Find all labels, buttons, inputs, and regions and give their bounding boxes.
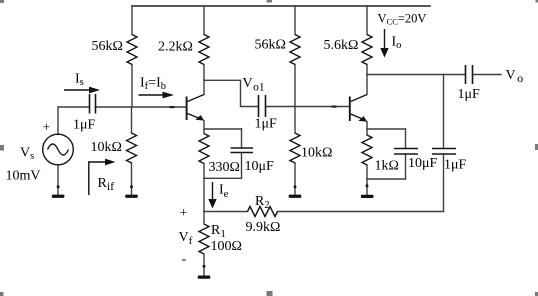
wire 56k R_B1 bottom lead to base node bbox=[131, 65, 133, 108]
wire feedback cap bottom lead bbox=[443, 154, 445, 212]
svg-text:Vo: Vo bbox=[506, 68, 524, 85]
ground below 1k Q2 emitter bbox=[361, 185, 374, 199]
wire 10uF1 bottom lead bbox=[241, 153, 243, 179]
resistor 330 (Q1 emitter) bbox=[199, 134, 209, 164]
wire feedback line right bbox=[278, 211, 444, 213]
svg-text:VCC=20V: VCC=20V bbox=[378, 11, 427, 26]
resistor 5.6k (Q2 collector) bbox=[362, 35, 372, 65]
wire emitter node bottom bbox=[204, 177, 242, 179]
arrow Rif bbox=[89, 159, 116, 195]
wire 1k top lead bbox=[366, 129, 368, 135]
ground below 10k second stage bbox=[289, 186, 302, 198]
ground below R1 bbox=[198, 265, 211, 279]
wire 10k R_B2 top lead bbox=[131, 107, 133, 133]
wire source bottom to ground bbox=[57, 165, 59, 195]
resistor 2.2k (Q1 collector) bbox=[199, 35, 209, 65]
wire VCC top rail bbox=[132, 5, 430, 7]
wire emitter to feedback node bbox=[203, 178, 205, 211]
capacitor 1uF interstage coupling bbox=[259, 95, 266, 117]
wire 1k bottom lead bbox=[366, 165, 368, 179]
junction dot on Q1 base wire bbox=[170, 106, 175, 108]
arrow If=Ib bbox=[139, 92, 175, 99]
wire Vo1 cap to Q2 base bbox=[266, 106, 349, 108]
capacitor 1uF feedback coupling bbox=[432, 149, 456, 155]
wire output node line bbox=[367, 74, 466, 76]
wire 10uF1 top lead bbox=[241, 129, 243, 148]
wire R1 top lead bbox=[203, 212, 205, 225]
source Vs circle bbox=[43, 134, 74, 165]
wire emitter2 node top bbox=[367, 128, 406, 130]
svg-text:1kΩ: 1kΩ bbox=[375, 159, 399, 174]
svg-text:10kΩ: 10kΩ bbox=[91, 140, 122, 155]
svg-text:100Ω: 100Ω bbox=[211, 239, 242, 254]
resistor 1k (Q2 emitter) bbox=[362, 135, 372, 165]
svg-text:56kΩ: 56kΩ bbox=[92, 39, 123, 54]
svg-text:1μF: 1μF bbox=[458, 87, 481, 102]
svg-text:330Ω: 330Ω bbox=[209, 160, 240, 175]
svg-text:1μF: 1μF bbox=[255, 117, 278, 132]
capacitor 10uF Q1 emitter bypass bbox=[231, 148, 254, 153]
wire 2.2k bottom / Q1 collector bbox=[203, 65, 205, 95]
svg-text:10kΩ: 10kΩ bbox=[301, 146, 332, 161]
wire source top lead bbox=[57, 107, 59, 135]
capacitor 1uF output coupling bbox=[466, 65, 473, 84]
wire 56k R_B3 leads bbox=[294, 6, 296, 107]
svg-text:10mV: 10mV bbox=[6, 169, 41, 184]
svg-text:Rif: Rif bbox=[98, 176, 115, 193]
wire feedback line left bbox=[204, 211, 248, 213]
svg-text:5.6kΩ: 5.6kΩ bbox=[324, 38, 359, 53]
wire Q2 collector vertical bbox=[366, 75, 368, 95]
wire 10k R_B2 to ground bbox=[131, 163, 133, 194]
wire 2.2k top lead bbox=[203, 6, 205, 35]
capacitor 10uF Q2 emitter bypass bbox=[394, 149, 418, 155]
svg-text:+: + bbox=[43, 121, 51, 136]
resistor 10k (first stage lower bias) bbox=[127, 133, 137, 163]
svg-text:56kΩ: 56kΩ bbox=[255, 38, 286, 53]
resistor R2 9.9k (feedback, horizontal) bbox=[248, 207, 278, 217]
transistor Q1 bbox=[187, 95, 205, 121]
arrow Is bbox=[64, 87, 100, 94]
wire coupling cap to Q1 base bbox=[96, 106, 186, 108]
wire input node to coupling cap bbox=[58, 106, 89, 108]
transistor Q2 bbox=[350, 95, 367, 122]
wire 10uF2 bottom lead bbox=[405, 154, 407, 179]
arrow Ie bbox=[208, 182, 216, 209]
wire feedback cap top lead bbox=[443, 75, 445, 149]
resistor 10k (second stage lower bias) bbox=[290, 133, 300, 163]
svg-text:10μF: 10μF bbox=[408, 156, 438, 171]
resistor 56k (second stage upper bias) bbox=[290, 35, 300, 65]
svg-text:10μF: 10μF bbox=[245, 159, 275, 174]
wire 5.6k leads bbox=[366, 6, 368, 75]
wire 10k R_B4 to ground bbox=[294, 163, 296, 194]
wire emitter2 node bottom bbox=[367, 178, 406, 180]
capacitor 1uF input coupling bbox=[90, 94, 96, 114]
ground below source bbox=[52, 186, 65, 198]
wire emitter2 ground stub bbox=[366, 179, 368, 195]
wire 330 bottom lead bbox=[203, 164, 205, 179]
wire Q2 emitter vertical bbox=[366, 122, 368, 129]
wire 10uF2 top lead bbox=[405, 129, 407, 149]
wire emitter node top bbox=[204, 128, 242, 130]
svg-text:-: - bbox=[182, 252, 187, 267]
wire Q1 emitter vertical bbox=[203, 121, 205, 130]
wire 330 top lead bbox=[203, 129, 205, 134]
wire R1 bottom to ground bbox=[203, 254, 205, 275]
wire collector tap to Vo1 cap bbox=[204, 80, 259, 106]
svg-text:+: + bbox=[180, 206, 188, 221]
junction dot on Q2 base wire bbox=[332, 106, 337, 108]
svg-text:9.9kΩ: 9.9kΩ bbox=[246, 220, 281, 235]
wire 10k R_B4 top lead bbox=[294, 107, 296, 134]
svg-text:2.2kΩ: 2.2kΩ bbox=[158, 40, 193, 55]
resistor 56k (first stage upper bias) bbox=[127, 35, 137, 65]
wire 56k R_B1 top lead bbox=[131, 6, 133, 35]
resistor R1 100 (feedback) bbox=[199, 224, 209, 254]
wire output cap to Vo bbox=[473, 74, 502, 76]
arrow Io bbox=[380, 29, 388, 58]
svg-text:1μF: 1μF bbox=[444, 158, 467, 173]
svg-text:1μF: 1μF bbox=[73, 118, 96, 133]
ground below 10k first stage bbox=[125, 186, 138, 198]
